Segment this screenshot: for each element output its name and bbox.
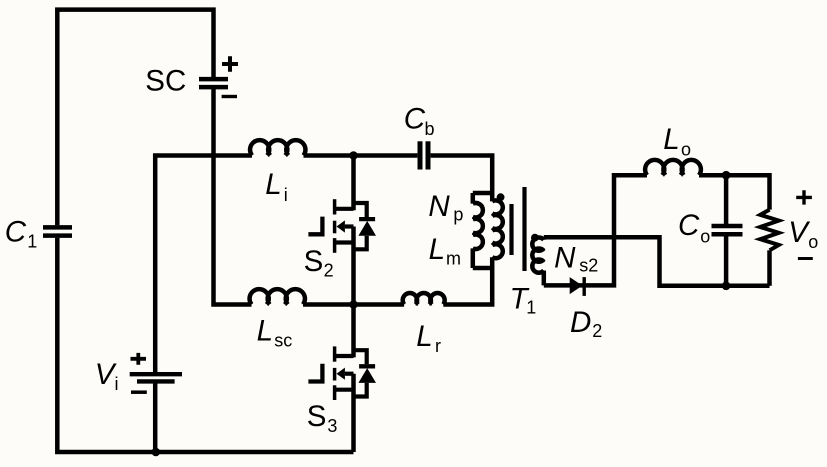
- svg-text:S: S: [307, 400, 327, 433]
- svg-text:s2: s2: [579, 256, 598, 276]
- svg-text:2: 2: [592, 321, 602, 341]
- svg-text:r: r: [435, 336, 441, 356]
- svg-text:L: L: [663, 123, 679, 156]
- svg-text:S: S: [304, 245, 324, 278]
- svg-text:N: N: [554, 242, 576, 275]
- svg-text:o: o: [808, 232, 818, 252]
- svg-text:1: 1: [526, 298, 536, 318]
- svg-text:V: V: [788, 216, 810, 249]
- svg-text:C: C: [5, 215, 27, 248]
- svg-text:N: N: [428, 190, 450, 223]
- svg-text:L: L: [429, 233, 445, 266]
- svg-text:L: L: [416, 320, 432, 353]
- svg-text:b: b: [425, 119, 435, 139]
- svg-text:D: D: [570, 306, 591, 339]
- svg-text:p: p: [453, 205, 463, 225]
- svg-text:C: C: [404, 102, 426, 135]
- svg-text:L: L: [265, 168, 281, 201]
- svg-text:V: V: [95, 358, 117, 391]
- svg-text:2: 2: [324, 261, 334, 281]
- svg-text:L: L: [257, 314, 273, 347]
- svg-text:3: 3: [327, 416, 337, 436]
- svg-text:o: o: [700, 227, 710, 247]
- svg-text:1: 1: [27, 232, 37, 252]
- svg-text:i: i: [284, 185, 288, 205]
- svg-text:SC: SC: [145, 65, 186, 98]
- svg-text:C: C: [678, 209, 700, 242]
- svg-text:o: o: [681, 139, 691, 159]
- svg-text:m: m: [446, 249, 461, 269]
- svg-text:sc: sc: [274, 331, 292, 351]
- svg-text:i: i: [115, 374, 119, 394]
